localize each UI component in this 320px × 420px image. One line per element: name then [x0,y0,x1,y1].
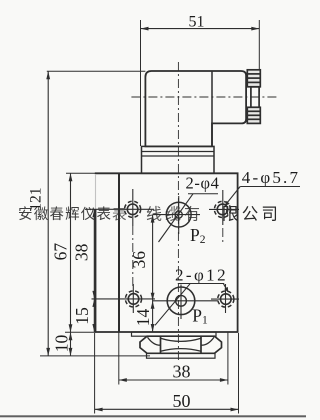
bottom scan line [0,415,306,417]
svg-text:2-φ4: 2-φ4 [186,174,220,193]
svg-text:51: 51 [189,13,205,30]
main body [95,173,238,332]
body inner vertical line [118,173,120,332]
svg-text:121: 121 [28,187,45,210]
vertical axis centerline [177,62,179,361]
hole top-left [85,189,154,313]
svg-text:38: 38 [173,361,191,381]
nut bottom step [147,353,216,358]
connector box right face line [211,71,213,146]
dim 51 line [141,20,260,146]
dim 50 [95,333,239,414]
dim 36 / 14 line [151,215,155,332]
dim 67 / 10 line [65,173,96,356]
svg-text:36: 36 [129,251,149,269]
svg-text:2-φ12: 2-φ12 [175,266,228,285]
svg-text:4-φ5.7: 4-φ5.7 [242,168,300,187]
bottom-left extension line [40,355,150,357]
svg-text:15: 15 [72,307,92,325]
svg-text:50: 50 [173,391,191,411]
hole bottom-right [211,284,239,313]
port P1 circle [153,285,218,320]
nut top plate [132,332,217,336]
cable gland [247,70,260,124]
hex nut [140,336,222,353]
port P2 circle [153,196,200,234]
svg-text:14: 14 [133,309,153,327]
hole bottom-left [92,291,156,307]
horizontal connector centerline [131,96,278,98]
connector flange [142,146,215,173]
svg-text:67: 67 [51,243,71,261]
connector box [145,71,246,146]
hole top-right [209,190,239,243]
svg-text:38: 38 [72,243,92,261]
dim 121 line [46,71,145,356]
dim 38 bottom [119,333,228,385]
dim 38 left / 15 line [92,209,96,332]
svg-text:10: 10 [52,335,72,353]
